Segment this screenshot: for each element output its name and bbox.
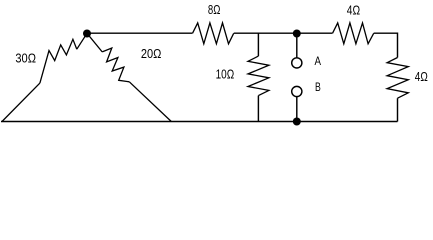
resistor R10 10ohm zigzag (248, 56, 269, 96)
resistor R10 bottom lead (257, 96, 259, 122)
wire 4ohm right bottom lead (397, 98, 399, 121)
resistor R4a 4ohm top zigzag (333, 23, 374, 44)
svg-text:30Ω: 30Ω (15, 51, 36, 65)
resistor R30 30ohm zigzag (40, 39, 77, 83)
resistor R30 lead top (77, 33, 87, 49)
resistor R4b 4ohm right zigzag (387, 58, 408, 99)
svg-text:B: B (315, 82, 321, 94)
svg-text:10Ω: 10Ω (216, 68, 235, 82)
wire bottom bus (1, 121, 398, 123)
terminal A open circle (292, 58, 302, 68)
wire top right corner down (374, 33, 398, 57)
resistor R10 top lead (257, 33, 259, 56)
wire top bus left (87, 32, 192, 34)
terminal B open circle (292, 86, 302, 96)
wire top bus middle (234, 32, 333, 34)
svg-text:20Ω: 20Ω (141, 47, 162, 61)
svg-text:8Ω: 8Ω (208, 3, 221, 17)
node bottom junction dot (293, 118, 301, 126)
resistor R20 20ohm zigzag (102, 48, 129, 82)
svg-text:4Ω: 4Ω (415, 70, 428, 84)
node apex junction dot (83, 30, 91, 38)
resistor R20 lead top (87, 33, 102, 52)
resistor R30 lead bottom (2, 83, 40, 121)
wire terminal B lead (296, 97, 298, 122)
resistor R20 lead bottom (129, 82, 171, 122)
svg-text:4Ω: 4Ω (347, 4, 360, 18)
wire terminal A lead (296, 33, 298, 58)
svg-text:A: A (315, 56, 322, 68)
node top junction dot (293, 30, 301, 38)
resistor R8 8ohm zigzag (193, 23, 234, 44)
